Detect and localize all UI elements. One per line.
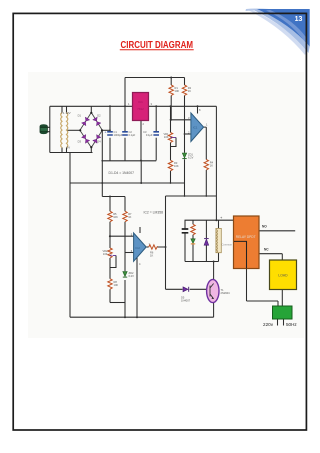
- capacitor C3: [153, 132, 159, 135]
- wire R8 bottom across to ZD2 column: [110, 302, 125, 304]
- wire opamp2 pin3 bold: [110, 235, 134, 237]
- svg-text:IC2: IC2: [135, 246, 140, 250]
- wire relay common pin down to plug: [247, 269, 279, 307]
- resistor R2: [182, 85, 186, 96]
- relay RL1 DPDT: [234, 216, 260, 269]
- connector J1 AC input: [40, 124, 47, 134]
- transistor T1: [207, 279, 219, 302]
- corner decoration left top tail: [246, 9, 283, 13]
- load box: [270, 260, 297, 290]
- wire regulator pin2 down: [140, 121, 142, 161]
- wire ground line under caps: [102, 160, 156, 162]
- resistor R1: [169, 85, 173, 96]
- relay coil L1: [216, 228, 221, 252]
- bridge rectifier D1-D4: [80, 113, 102, 148]
- wire C1 column: [109, 106, 111, 160]
- mains plug: [273, 306, 293, 319]
- wire vertical x125 top rail to main rail: [124, 78, 126, 107]
- corner decoration wispy fan: [249, 10, 308, 56]
- wire primary loop left vertical: [49, 106, 51, 152]
- wire opamp1 output to R4: [204, 127, 207, 196]
- resistor R6: [149, 245, 158, 249]
- wire opamp2 output to R6: [146, 246, 149, 248]
- wire NO stub: [259, 230, 295, 232]
- wire main rail y106.3 left of regulator: [50, 105, 133, 107]
- wire load bottom to plug: [281, 290, 283, 307]
- capacitor C1: [107, 132, 113, 135]
- svg-text:D3: D3: [78, 140, 82, 144]
- wire R1 column leads: [170, 78, 172, 120]
- wire bus A y183: [70, 182, 185, 184]
- diode D5: [183, 287, 189, 292]
- wire left tall vertical x70: [69, 153, 71, 318]
- wire secondary coil stubs: [66, 106, 68, 152]
- wire NC stub to load: [259, 254, 282, 260]
- svg-text:NO: NO: [262, 225, 267, 229]
- wire VR2 to R8: [109, 258, 111, 303]
- wire relay common contact internal: [234, 241, 247, 268]
- svg-text:D2: D2: [97, 114, 101, 118]
- wire opamp1 power pin8: [197, 106, 199, 113]
- wire relay driver top y220.2: [185, 219, 234, 221]
- zener ZD2: [123, 272, 127, 278]
- svg-text:10K: 10K: [174, 164, 179, 168]
- svg-text:1K: 1K: [150, 254, 153, 258]
- wire VR1 to R3: [170, 143, 172, 184]
- circuit canvas tint: [28, 72, 304, 338]
- wire ZD1 column: [184, 134, 186, 183]
- transformer T1 secondary coil: [67, 113, 68, 148]
- wire freewheel diode column: [205, 220, 207, 261]
- wire bus A jog horizontal y196: [166, 195, 217, 197]
- wire driver bottom y261.5: [185, 261, 219, 263]
- wire bridge output down to lower bus: [101, 130, 103, 196]
- wire top rail y77.5: [125, 77, 185, 79]
- wire opamp2 pin2 stub: [125, 252, 134, 254]
- svg-text:0.1µF: 0.1µF: [146, 133, 153, 137]
- svg-text:10K: 10K: [164, 135, 169, 139]
- junction dots: [101, 77, 217, 319]
- op-amp IC2b: [134, 233, 147, 261]
- svg-text:1000µF: 1000µF: [114, 133, 123, 137]
- corner decoration main blue triangle: [257, 9, 310, 47]
- wire bridge bottom corner down: [90, 147, 92, 153]
- svg-text:50Hz: 50Hz: [286, 322, 297, 327]
- svg-text:IC1: IC1: [138, 100, 143, 104]
- svg-text:13: 13: [295, 16, 303, 23]
- wire opamp2 power pin4: [136, 258, 138, 318]
- transformer T1 primary coil: [61, 113, 62, 148]
- wire C2 column: [124, 106, 126, 160]
- corner decoration parallel light band: [253, 9, 310, 53]
- svg-text:1K: 1K: [188, 89, 191, 93]
- wire lower bus B y196.5: [102, 196, 125, 198]
- svg-text:10K: 10K: [113, 215, 118, 219]
- wire R7 column: [124, 197, 126, 253]
- svg-text:10K: 10K: [103, 252, 108, 256]
- wire connector leads: [46, 127, 50, 131]
- svg-text:+: +: [105, 131, 107, 135]
- resistor R7: [123, 211, 127, 222]
- svg-text:D1-D4 = 1N4007: D1-D4 = 1N4007: [109, 171, 135, 175]
- wire R6 to base-drop vertical: [158, 196, 166, 289]
- wire bus A jog down: [184, 183, 186, 196]
- svg-text:6.2V: 6.2V: [129, 274, 135, 278]
- svg-text:Common: Common: [222, 243, 233, 247]
- svg-text:D4: D4: [97, 140, 101, 144]
- wire ZD2 column: [124, 253, 126, 318]
- wire bridge right output to C1 column: [102, 129, 110, 131]
- svg-text:0V: 0V: [67, 146, 71, 150]
- wire opamp2 power pin8 stub: [139, 227, 141, 233]
- svg-text:1K: 1K: [210, 164, 213, 168]
- svg-text:220v: 220v: [263, 322, 274, 327]
- wire main rail y106.3 right of regulator: [149, 105, 217, 107]
- potentiometer VR1: [168, 133, 172, 143]
- wire C3 column: [155, 106, 157, 160]
- svg-text:NC: NC: [264, 248, 269, 252]
- resistor R5: [108, 211, 112, 222]
- svg-text:RELAY DPDT: RELAY DPDT: [236, 235, 256, 239]
- voltage regulator IC1 7812: [133, 93, 149, 121]
- wire secondary mid tap to bridge left corner: [67, 129, 80, 131]
- potentiometer VR2: [108, 248, 112, 258]
- wire plug prongs: [278, 319, 284, 326]
- freewheel diode D6: [204, 239, 209, 246]
- svg-text:2N2904: 2N2904: [221, 291, 231, 295]
- wire opamp1 pin2 stub: [185, 133, 191, 135]
- svg-text:1K: 1K: [128, 215, 131, 219]
- wire right tall vertical x216.4: [215, 106, 217, 220]
- wire C5 column: [184, 220, 186, 261]
- wire transformer bottom line: [50, 152, 93, 154]
- zener ZD1: [182, 153, 186, 159]
- wire VR2 column top: [109, 236, 111, 248]
- svg-text:CIRCUIT DIAGRAM: CIRCUIT DIAGRAM: [121, 40, 194, 51]
- svg-text:LOAD: LOAD: [278, 274, 288, 278]
- resistor R3: [168, 160, 172, 171]
- capacitor C2: [122, 132, 128, 135]
- svg-text:7812: 7812: [137, 107, 144, 111]
- wire base wire with D5: [166, 288, 208, 290]
- op-amp IC2a: [191, 113, 204, 142]
- wire ground feed down to bus A: [140, 161, 142, 184]
- capacitor C4: [182, 229, 189, 233]
- svg-text:10K: 10K: [114, 283, 119, 287]
- wire R2 column leads: [184, 78, 186, 135]
- wire opamp1 pin3 bold: [171, 119, 191, 121]
- wire bottom ground rail y317: [70, 316, 214, 318]
- svg-text:D1: D1: [78, 114, 82, 118]
- resistor R8: [108, 279, 112, 290]
- wire LED column: [192, 220, 194, 261]
- corner decoration inner light diagonal: [266, 10, 307, 42]
- LED1: [191, 239, 195, 244]
- svg-text:T1 12V: T1 12V: [61, 111, 71, 115]
- wire bridge top corner to rail: [90, 106, 92, 113]
- wire transistor collector: [213, 262, 215, 281]
- wire R5 column: [109, 197, 111, 237]
- svg-text:0.1µF: 0.1µF: [129, 133, 136, 137]
- wire transistor emitter: [213, 302, 215, 318]
- svg-text:6.2V: 6.2V: [188, 156, 194, 160]
- svg-text:IC2 = LM358: IC2 = LM358: [144, 211, 164, 215]
- resistor R9 above LED: [191, 224, 195, 235]
- wire VR1 wiper loop: [171, 138, 177, 147]
- svg-text:10K: 10K: [175, 89, 180, 93]
- wire VR2 wiper loop: [111, 256, 117, 268]
- title underline: [120, 49, 194, 51]
- svg-text:1N4007: 1N4007: [181, 299, 191, 303]
- wire relay coil column: [218, 220, 220, 261]
- wire VR1 column top: [170, 106, 172, 132]
- svg-text:IC1: IC1: [193, 126, 198, 130]
- resistor R4: [204, 160, 208, 171]
- wire primary coil stubs: [61, 106, 63, 152]
